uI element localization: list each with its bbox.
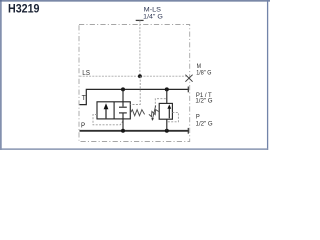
svg-text:H3219: H3219 xyxy=(8,3,40,16)
V2 flow arrow xyxy=(168,107,170,118)
port P tick xyxy=(187,128,189,134)
node junction V2 on P rail xyxy=(165,129,169,133)
LS line (dashed) xyxy=(80,75,189,77)
V1 spring xyxy=(130,110,144,116)
valve V2 relief body xyxy=(159,103,172,119)
M-LS pilot line (dashed vertical) xyxy=(139,21,141,77)
V2 vent loop (dashed, upper-left) xyxy=(155,99,167,108)
P rail xyxy=(80,130,189,132)
manifold block outline (dash-dot) xyxy=(79,25,190,142)
port M-LS tick xyxy=(136,19,144,21)
page frame border xyxy=(0,0,270,2)
node LS junction xyxy=(138,74,142,78)
svg-text:T: T xyxy=(82,95,87,102)
V1 blocked position (right) xyxy=(122,102,124,107)
valve V1 body xyxy=(97,102,130,119)
wire down to valve V2 xyxy=(166,89,168,103)
svg-text:1/2" G: 1/2" G xyxy=(195,98,212,105)
V2 pilot loop (dashed, right) xyxy=(167,113,179,122)
wire down to valve V1 xyxy=(122,89,124,101)
svg-text:LS: LS xyxy=(82,70,90,77)
svg-text:P: P xyxy=(81,123,85,130)
node junction above valve V1 xyxy=(121,87,125,91)
wire T to P1/T rail xyxy=(80,89,189,104)
V2 spring xyxy=(149,110,159,117)
wire valve V1 down to P rail xyxy=(122,119,124,131)
V2 adjustment arrow xyxy=(153,106,156,119)
V1 pilot loop (dashed) xyxy=(93,115,123,125)
node junction V1 on P rail xyxy=(121,129,125,133)
wire valve V2 down to P rail xyxy=(166,119,168,131)
port M cross xyxy=(185,75,192,82)
svg-text:1/2" G: 1/2" G xyxy=(196,120,213,127)
V1 check arrow (left position) xyxy=(105,108,107,118)
node junction above valve V2 xyxy=(165,87,169,91)
V1 spring-side pilot from LS (dashed) xyxy=(130,76,140,104)
svg-text:1/4" G: 1/4" G xyxy=(143,14,163,21)
port P1/T tick xyxy=(187,87,189,93)
svg-text:1/8" G: 1/8" G xyxy=(196,69,211,76)
